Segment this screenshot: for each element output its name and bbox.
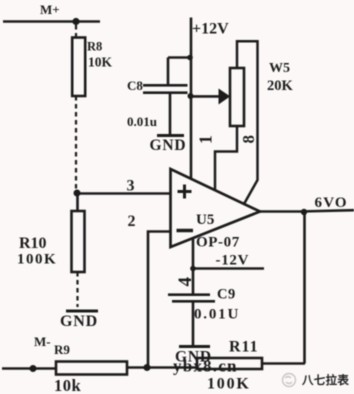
wire R10 top lead bbox=[76, 193, 79, 211]
svg-text:OP-07: OP-07 bbox=[196, 235, 240, 251]
ground symbol below C9 bbox=[179, 345, 210, 348]
svg-text:4: 4 bbox=[175, 277, 196, 287]
wire -12V stub bbox=[193, 267, 264, 270]
capacitor C9 plates bbox=[168, 295, 215, 302]
wire wiper arrow to W5 bbox=[191, 95, 220, 98]
wire pin 4 to -12V bbox=[192, 239, 195, 294]
svg-text:8: 8 bbox=[239, 135, 258, 144]
svg-text:U5: U5 bbox=[196, 212, 214, 228]
watermark logo circle bbox=[283, 374, 296, 387]
svg-text:10K: 10K bbox=[88, 55, 113, 70]
resistor R9 body bbox=[56, 362, 127, 375]
svg-text:GND: GND bbox=[150, 137, 187, 154]
wire pin 3 to op-amp bbox=[77, 192, 171, 195]
junction dot wiper on rail bbox=[188, 93, 194, 99]
svg-text:100K: 100K bbox=[207, 376, 251, 393]
minus input marking bbox=[177, 229, 194, 232]
svg-text:R8: R8 bbox=[87, 40, 102, 54]
wire M- input line bbox=[2, 367, 56, 370]
svg-text:0.01u: 0.01u bbox=[127, 114, 157, 129]
svg-text:W5: W5 bbox=[269, 61, 290, 76]
resistor R11 body bbox=[197, 358, 262, 369]
svg-text:-12V: -12V bbox=[216, 253, 250, 269]
ground symbol below C8 bbox=[157, 134, 184, 137]
wire dashed from R8 bottom to node 3 bbox=[75, 96, 77, 189]
wire C9 bottom to ground bbox=[192, 301, 195, 345]
wire op-amp output bbox=[260, 210, 354, 211]
wire W5 top terminal loop to pin 8 bbox=[237, 41, 258, 204]
svg-text:M+: M+ bbox=[40, 2, 60, 17]
wire W5 bottom terminal to pin 1 bbox=[215, 126, 237, 190]
svg-text:2: 2 bbox=[128, 213, 136, 230]
svg-text:100K: 100K bbox=[17, 252, 57, 268]
junction dot C8 top on rail bbox=[187, 55, 193, 61]
svg-text:0.01U: 0.01U bbox=[194, 307, 240, 323]
svg-text:1: 1 bbox=[196, 135, 216, 144]
wire C8 top connection to rail bbox=[168, 58, 191, 85]
wire feedback vertical from output to R11 bbox=[303, 212, 306, 364]
wire R11 right lead to feedback bbox=[262, 362, 305, 365]
wire C8 bottom to ground bbox=[169, 93, 172, 134]
wire dashed from M+ to R8 top bbox=[75, 25, 77, 38]
junction dot node 2 bottom bbox=[144, 364, 151, 371]
svg-text:10k: 10k bbox=[54, 376, 82, 394]
junction dot on M+ line bbox=[72, 18, 79, 25]
junction dot node 3 bbox=[74, 190, 81, 197]
junction dot on M- line bbox=[30, 365, 37, 372]
svg-text:R10: R10 bbox=[19, 235, 47, 252]
svg-text:GND: GND bbox=[60, 313, 98, 330]
svg-text:ybx8.cn: ybx8.cn bbox=[173, 357, 238, 376]
svg-text:C9: C9 bbox=[217, 287, 236, 303]
junction dot pin4 node bbox=[190, 266, 196, 272]
svg-text:R9: R9 bbox=[54, 342, 70, 357]
capacitor C8 plates bbox=[143, 85, 188, 92]
potentiometer W5 body bbox=[230, 68, 244, 126]
svg-text:+12V: +12V bbox=[192, 21, 229, 38]
svg-text:6VO: 6VO bbox=[315, 195, 348, 211]
wire +12V rail to pin 7 bbox=[190, 18, 193, 180]
junction dot at output bbox=[301, 209, 307, 215]
wire M+ horizontal input line bbox=[3, 20, 100, 23]
plus input marking bbox=[178, 185, 192, 199]
wire pin 2 to op-amp bbox=[148, 232, 171, 368]
svg-text:R11: R11 bbox=[229, 339, 259, 356]
op-amp U5 triangle bbox=[171, 169, 261, 247]
svg-text:C8: C8 bbox=[127, 78, 143, 93]
svg-text:3: 3 bbox=[127, 178, 135, 195]
svg-text:M-: M- bbox=[34, 334, 51, 349]
svg-text:20K: 20K bbox=[267, 78, 294, 94]
resistor R8 body bbox=[72, 38, 85, 97]
wire dashed from R10 bottom to ground bbox=[76, 272, 78, 307]
resistor R10 body bbox=[72, 211, 85, 272]
svg-text:八七拉表: 八七拉表 bbox=[301, 373, 349, 387]
wire R9 to R11 bbox=[127, 366, 197, 369]
ground symbol below R10 bbox=[66, 310, 98, 313]
